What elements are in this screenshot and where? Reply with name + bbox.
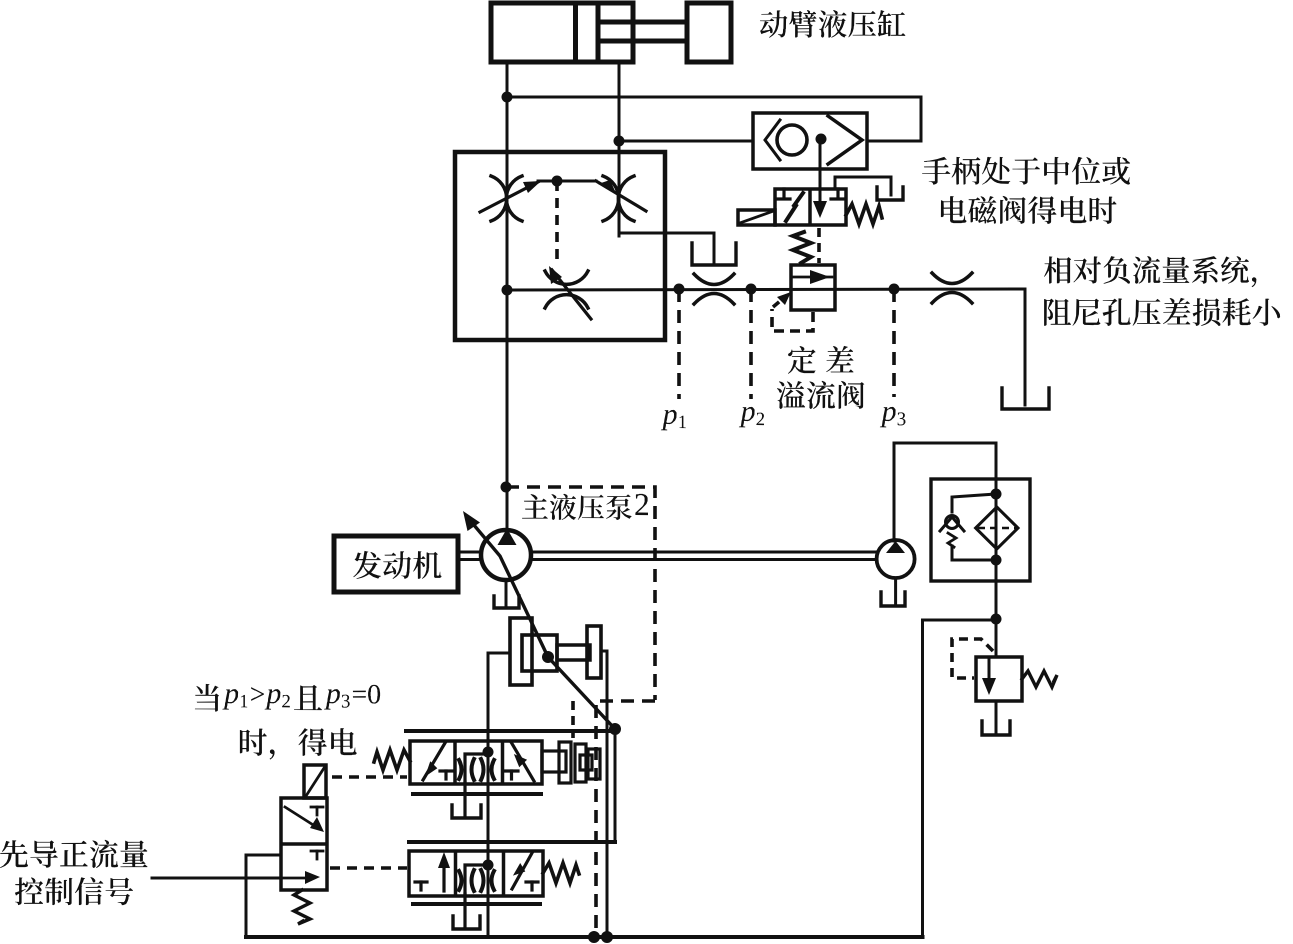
- label pilot signal line1: [0, 840, 148, 868]
- dashed pilot line p2: [749, 289, 753, 399]
- label main pump 2: [522, 494, 648, 520]
- meter-out orifice arrow: [596, 181, 646, 211]
- node shuttle output: [816, 134, 827, 145]
- pump 2 fixed displacement: [877, 540, 915, 578]
- pump 2 case drain: [894, 578, 897, 603]
- label negative flow note line1: [1044, 256, 1257, 287]
- label relief valve line2: [777, 381, 865, 409]
- bottom return rail: [246, 935, 923, 939]
- relief valve arrow: [792, 276, 832, 279]
- main control valve box: [455, 152, 665, 340]
- valve 1 bottom rail: [413, 792, 541, 796]
- label negative flow note line2: [1044, 298, 1280, 326]
- node rod-side branch: [614, 136, 625, 147]
- pump 1 swash arrow: [468, 518, 615, 729]
- label handle note line2: [941, 196, 1117, 224]
- valve 2 bottom rail: [413, 902, 540, 906]
- shuttle right cone: [828, 116, 862, 164]
- pump 1 variable displacement: [481, 530, 531, 580]
- tank drain pilot valve: [877, 187, 903, 200]
- valve 1 pilot dashed: [332, 775, 407, 779]
- meter-in orifice arrow: [480, 182, 538, 212]
- label boom cylinder: [760, 10, 906, 37]
- relief valve drain dashed loop: [772, 309, 813, 331]
- relief valve 2 arrow: [988, 660, 991, 686]
- node filter top: [991, 489, 1002, 500]
- valve 2 pilot dashed: [330, 866, 407, 870]
- valve 1 centre orifices: [459, 760, 462, 779]
- meter-out variable orifice right arcs: [603, 176, 619, 221]
- solenoid actuator top: [304, 765, 326, 798]
- valve 1 feedback top line: [406, 729, 615, 733]
- relief valve 2 to tank: [995, 701, 998, 732]
- wire pump 2 outlet to filter: [894, 443, 996, 657]
- label condition line1: [195, 684, 380, 712]
- node p1: [674, 284, 685, 295]
- node on main vertical: [502, 285, 513, 296]
- node valve 2 centre: [483, 860, 494, 871]
- valve 2 tank: [463, 894, 466, 926]
- tank sense line: [1002, 388, 1049, 409]
- node p3: [889, 284, 900, 295]
- bridge line with node: [538, 180, 596, 183]
- valve 2 feedback top line: [409, 840, 615, 844]
- label p3: [880, 407, 906, 428]
- valve 1 left position arrow: [423, 743, 445, 780]
- servo right drain wire: [601, 651, 607, 936]
- relief valve 2 pilot dashed: [952, 639, 993, 678]
- label condition line2: [240, 728, 357, 760]
- filter bypass branch: [952, 494, 996, 512]
- boom cylinder: [491, 3, 731, 62]
- relief pilot dashed from pilot valve: [817, 228, 821, 263]
- relief valve spring top: [793, 232, 811, 263]
- node pump outlet pilot branch: [501, 482, 512, 493]
- servo rod: [557, 645, 590, 660]
- node relief 2 branch: [991, 614, 1002, 625]
- wire rod-side to shuttle: [619, 140, 753, 143]
- wire shuttle output down with arrow: [819, 139, 822, 204]
- solenoid valve lower position path: [311, 850, 323, 853]
- damping orifice right: [932, 273, 972, 284]
- valve 1 spring left: [374, 750, 410, 770]
- pilot valve left position bolt: [786, 193, 803, 221]
- servo piston plate: [510, 618, 532, 685]
- pump 2 outlet riser: [893, 443, 896, 541]
- wire cylinder head-side port down: [506, 62, 509, 530]
- bypass check valve: [946, 516, 959, 529]
- pilot dashed from pump outlet: [506, 487, 655, 700]
- node servo feedback: [542, 651, 554, 663]
- node drain rail right: [601, 931, 613, 943]
- fixed-differential relief valve box: [791, 265, 835, 310]
- dashed pilot line p1: [677, 289, 681, 399]
- pilot signal solenoid valve body: [281, 798, 327, 890]
- pilot signal input wire: [152, 877, 281, 880]
- valve 2 right position arrow: [512, 853, 532, 889]
- servo cylinder body: [522, 635, 557, 671]
- pilot valve 2/2 box: [775, 189, 846, 225]
- node filter bottom: [991, 555, 1002, 566]
- pilot valve left blocked T: [782, 189, 785, 198]
- node valve 1 centre: [483, 747, 494, 758]
- pilot valve drain line: [835, 177, 891, 195]
- bypass variable orifice arcs: [545, 271, 588, 284]
- solenoid valve upper position arrow: [285, 807, 318, 828]
- servo left pilot wire: [488, 653, 510, 936]
- tank pump 1: [494, 596, 519, 608]
- wire head-side to shuttle loop: [507, 97, 921, 141]
- drain line inside box to tank: [619, 141, 714, 263]
- pump 1 case drain: [505, 581, 508, 606]
- shuttle ball: [777, 125, 807, 155]
- valve 2 left position arrow: [442, 860, 445, 891]
- meter-in variable orifice left arcs: [491, 176, 507, 221]
- pilot valve spring: [846, 204, 882, 224]
- valve 1 proportional body: [410, 741, 542, 784]
- node feedback to valves: [609, 723, 621, 735]
- engine box: [334, 536, 458, 592]
- shuttle valve box: [753, 113, 867, 169]
- valve 1 tank: [463, 782, 466, 815]
- shuttle left seat: [765, 120, 780, 160]
- label p1: [661, 410, 686, 431]
- wire feedback node down: [614, 729, 617, 842]
- valve 1 right position arrow: [511, 742, 534, 781]
- filter element diamond: [976, 507, 1018, 549]
- node drain rail left: [588, 931, 600, 943]
- return wire to rail: [923, 620, 997, 937]
- servo right plate: [587, 626, 601, 678]
- tank pump 2: [881, 592, 905, 606]
- wire sense line to tank: [1024, 289, 1027, 405]
- wire cylinder rod-side port down: [618, 62, 621, 236]
- pilot valve right blocked T: [836, 189, 839, 198]
- dashed pilot line p3: [892, 289, 896, 397]
- drive shaft: [458, 551, 480, 554]
- label relief valve line1: [788, 346, 854, 374]
- filter unit box: [931, 479, 1030, 581]
- solenoid valve return wire: [246, 855, 281, 937]
- label handle note line1: [922, 157, 1130, 185]
- main sense line p1 p2 p3: [507, 289, 1025, 290]
- tank drain valve box: [692, 243, 736, 265]
- relief valve 2 box: [976, 657, 1022, 701]
- valve 2 centre orifices: [459, 871, 462, 890]
- valve 1 proportional solenoid stack: [542, 751, 566, 772]
- label p2: [739, 407, 764, 428]
- label engine: [353, 551, 441, 579]
- solenoid actuator: [738, 210, 775, 225]
- bypass orifice arrow: [552, 270, 591, 319]
- damping orifice between p1 p2: [694, 274, 734, 285]
- dashed pilot from bridge node down: [555, 181, 559, 264]
- node head-side branch: [502, 92, 513, 103]
- solenoid valve spring bottom: [294, 890, 310, 924]
- label pilot signal line2: [15, 877, 133, 905]
- node p2: [746, 284, 757, 295]
- relief valve 2 spring: [1022, 671, 1057, 687]
- valve 2 proportional body: [409, 851, 543, 896]
- valve 2 spring right: [543, 863, 579, 883]
